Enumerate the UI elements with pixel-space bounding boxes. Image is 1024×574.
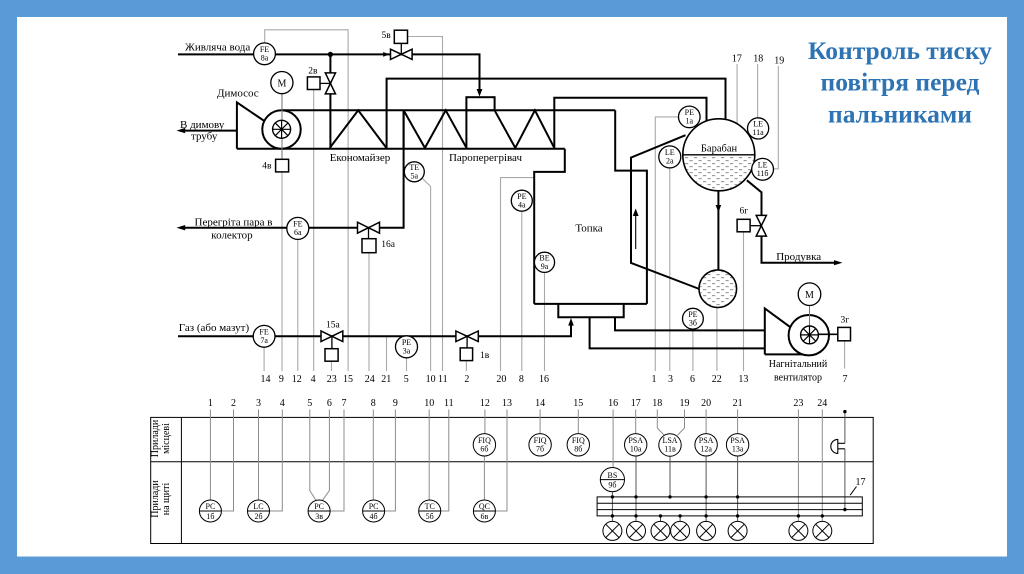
instrument TC 5б <box>419 500 441 522</box>
wire 14 (from FE 7a) <box>263 347 265 371</box>
svg-text:11: 11 <box>444 398 454 409</box>
wire 10 (from TE 5a) <box>421 177 431 372</box>
wire column 10 <box>428 410 430 501</box>
svg-text:5: 5 <box>404 374 409 385</box>
svg-text:16а: 16а <box>381 240 396 250</box>
wire PSA 10a to lamp <box>635 456 637 521</box>
svg-text:9а: 9а <box>541 262 549 271</box>
forced draft fan housing <box>765 309 808 355</box>
svg-text:13а: 13а <box>732 445 744 454</box>
wire: superheated steam line to collector <box>180 110 404 227</box>
instrument FE 8a <box>254 43 276 65</box>
blowdown line from drum to valve 6г <box>747 180 762 215</box>
svg-text:4б: 4б <box>370 512 378 521</box>
burner box <box>558 304 623 317</box>
svg-text:М: М <box>277 78 286 89</box>
instrument PSA 12a <box>695 434 717 456</box>
svg-text:6в: 6в <box>481 512 489 521</box>
column number labels <box>208 398 827 409</box>
valve 16a <box>358 222 396 253</box>
svg-text:7: 7 <box>342 398 347 409</box>
svg-text:Димосос: Димосос <box>217 88 259 100</box>
wire: downward arrow on drum vertical <box>716 205 722 213</box>
label Прилади місцеві <box>150 419 172 457</box>
wire column 4 <box>270 410 283 512</box>
svg-text:колектор: колектор <box>211 230 253 242</box>
svg-text:17: 17 <box>631 398 641 409</box>
drum to lower drum vertical <box>717 191 719 270</box>
wire 7 (from 3г actuator) <box>844 341 846 369</box>
svg-text:23: 23 <box>793 398 803 409</box>
label 17 bus <box>850 477 865 495</box>
svg-text:TC: TC <box>425 502 435 511</box>
svg-text:5в: 5в <box>382 31 392 41</box>
furnace bottom <box>534 303 647 305</box>
svg-text:15а: 15а <box>326 320 341 330</box>
svg-text:повітря перед: повітря перед <box>821 68 980 97</box>
svg-text:18: 18 <box>753 54 763 65</box>
valve 1в <box>456 331 490 361</box>
svg-text:8а: 8а <box>261 54 269 63</box>
svg-text:14: 14 <box>261 374 271 385</box>
instrument LSA 11в <box>659 434 681 456</box>
svg-text:7: 7 <box>843 374 848 385</box>
wire column 12 <box>484 410 486 434</box>
wire 22 (from lower drum) <box>716 300 718 371</box>
wire 15 (from FE 8a over the top) <box>265 30 348 371</box>
svg-text:Прилади: Прилади <box>150 480 161 518</box>
svg-text:4: 4 <box>311 374 316 385</box>
svg-text:Пароперегрівач: Пароперегрівач <box>449 152 523 164</box>
alarm horn <box>831 439 845 453</box>
instrument FE 7a <box>253 325 275 347</box>
svg-text:2: 2 <box>464 374 469 385</box>
wire 18 (to LE 11a) <box>757 64 759 118</box>
wire 8 (from PE 4a) <box>521 211 523 371</box>
instrument PE 1a <box>679 106 701 128</box>
svg-text:24: 24 <box>365 374 375 385</box>
wire FIQ 6б to QC 6в <box>483 456 485 500</box>
wire: Продувка arrow <box>834 260 843 265</box>
wire lamp 4 stub <box>679 516 681 522</box>
lamp 8 <box>813 521 832 540</box>
svg-text:6б: 6б <box>480 445 488 454</box>
instrument FIQ 7б <box>529 434 551 456</box>
svg-text:1в: 1в <box>480 351 490 361</box>
smoke exhauster impeller <box>273 120 291 138</box>
wire 1 (from PE 1a) <box>655 117 678 371</box>
svg-text:2б: 2б <box>254 512 262 521</box>
wire column 5 <box>310 410 316 501</box>
valve 2в <box>307 67 335 94</box>
smoke exhauster scroll circle <box>262 110 300 148</box>
wire 16 (from BE 9a) <box>544 273 546 371</box>
svg-text:Перегріта пара в: Перегріта пара в <box>195 216 273 228</box>
instrument PC 3в <box>308 500 330 522</box>
svg-text:Економайзер: Економайзер <box>330 152 391 164</box>
svg-text:21: 21 <box>733 398 743 409</box>
wire: fan to 3г <box>818 333 837 335</box>
wire 6 (from PE 3б) <box>692 329 694 371</box>
instrument LC 2б <box>248 500 270 522</box>
lamp 3 <box>651 521 670 540</box>
instrument PSA 13a <box>726 434 748 456</box>
wire column 21 <box>737 410 739 434</box>
svg-text:В димову: В димову <box>180 119 225 131</box>
wire 11 (from valve 5в actuator) <box>408 37 442 372</box>
svg-text:1: 1 <box>652 374 657 385</box>
svg-text:21: 21 <box>381 374 391 385</box>
svg-text:2а: 2а <box>666 157 674 166</box>
wire: to chimney line <box>180 130 237 132</box>
wire column 17 <box>635 410 637 434</box>
wire: feed water line <box>178 54 480 94</box>
svg-text:11а: 11а <box>752 128 764 137</box>
svg-text:9: 9 <box>279 374 284 385</box>
bus junction dots <box>611 495 847 517</box>
instrument PE 4a <box>511 190 532 211</box>
svg-text:10а: 10а <box>630 445 642 454</box>
gas line <box>178 321 571 337</box>
svg-text:6а: 6а <box>294 228 302 237</box>
svg-text:10: 10 <box>426 374 436 385</box>
svg-text:3в: 3в <box>315 512 323 521</box>
wire: M motor shaft fan2 <box>809 306 811 328</box>
wire column 14 <box>539 410 541 434</box>
motor M smoke exhauster <box>271 72 293 94</box>
instrument LE 11a <box>748 118 769 139</box>
svg-text:місцеві: місцеві <box>161 423 172 454</box>
wire column 8 <box>372 410 374 501</box>
instrument PSA 10a <box>625 434 647 456</box>
lamp 2 <box>627 521 646 540</box>
svg-text:6: 6 <box>690 374 695 385</box>
motor M forced draft fan <box>798 283 821 306</box>
lamp 4 <box>671 521 690 540</box>
svg-text:13: 13 <box>738 374 748 385</box>
lamp 1 <box>603 521 622 540</box>
instrument FE 6a <box>287 217 309 239</box>
svg-text:5: 5 <box>307 398 312 409</box>
lamp 5 <box>697 521 716 540</box>
wire: feed water arrow before valve 5в <box>383 52 389 57</box>
svg-text:Контроль тиску: Контроль тиску <box>808 36 992 65</box>
drum downcomer <box>631 135 699 289</box>
wire column 13 <box>495 410 507 512</box>
furnace gas passage left step <box>534 149 565 304</box>
wire 3 (from LE 2a) <box>669 168 671 371</box>
furnace gas passage right <box>615 110 647 304</box>
svg-text:12а: 12а <box>700 445 712 454</box>
blowdown line from valve to Продувка arrow <box>762 236 840 263</box>
lamp 6 <box>728 521 747 540</box>
wire number labels bottom of schematic <box>261 374 848 385</box>
svg-text:10: 10 <box>424 398 434 409</box>
svg-text:16: 16 <box>608 398 618 409</box>
lamp 7 <box>789 521 808 540</box>
svg-text:5а: 5а <box>411 172 419 181</box>
panel table frame <box>151 417 874 543</box>
4в sensor square <box>262 159 288 172</box>
economizer inlet header box <box>466 97 494 110</box>
svg-text:8б: 8б <box>574 445 582 454</box>
svg-text:15: 15 <box>343 374 353 385</box>
wire column 15 <box>577 410 579 434</box>
svg-text:1б: 1б <box>206 512 214 521</box>
wire 23 (from 15a actuator) <box>331 361 333 371</box>
wire 9 (from M / 4в of smoke exhauster) <box>281 94 283 371</box>
svg-text:на щиті: на щиті <box>161 483 172 516</box>
svg-text:24: 24 <box>817 398 827 409</box>
svg-text:3а: 3а <box>403 347 411 356</box>
wire column 7 <box>330 410 344 512</box>
forced draft fan impeller <box>801 326 819 344</box>
svg-text:20: 20 <box>496 374 506 385</box>
svg-text:12: 12 <box>292 374 302 385</box>
wire 17 (drum tap) <box>736 64 738 124</box>
wire 4 (from 2в actuator) <box>313 90 315 371</box>
svg-text:PC: PC <box>369 502 379 511</box>
svg-text:2: 2 <box>231 398 236 409</box>
wire column 3 <box>258 410 260 501</box>
forced draft fan scroll circle <box>789 315 829 355</box>
wire: steam collector arrow <box>177 225 186 230</box>
wire: M motor shaft through fan <box>281 94 283 159</box>
economizer coil <box>330 110 387 148</box>
svg-text:3: 3 <box>256 398 261 409</box>
svg-text:8: 8 <box>371 398 376 409</box>
svg-text:3г: 3г <box>841 316 850 326</box>
wire horn drop <box>844 412 846 444</box>
svg-text:6: 6 <box>327 398 332 409</box>
lower drum <box>698 269 738 309</box>
svg-text:11в: 11в <box>664 445 676 454</box>
wire column 2 <box>221 410 233 512</box>
valve 15a <box>321 320 343 361</box>
instrument BS 9б <box>600 468 624 492</box>
svg-text:пальниками: пальниками <box>828 100 972 129</box>
svg-text:Барабан: Барабан <box>701 144 738 155</box>
wire column 9 <box>385 410 396 512</box>
svg-text:Нагнітальний: Нагнітальний <box>769 359 828 370</box>
air duct upper line <box>615 317 765 330</box>
wire: chimney arrow <box>177 128 186 133</box>
wire 12 (from FE 6a) <box>297 240 299 371</box>
svg-text:трубу: трубу <box>191 131 218 143</box>
svg-text:17: 17 <box>732 54 742 65</box>
instrument PE 3a <box>396 336 418 358</box>
node: feed water junction <box>328 52 333 57</box>
svg-text:Топка: Топка <box>575 223 602 235</box>
instrument PC 1б <box>199 500 221 522</box>
valve 5в <box>382 30 413 59</box>
svg-text:LC: LC <box>253 502 263 511</box>
wire column 11 <box>440 410 449 512</box>
svg-text:17: 17 <box>856 477 866 488</box>
flue duct bottom <box>237 148 565 150</box>
wire column 18 <box>657 410 664 436</box>
air duct lower line <box>590 317 765 348</box>
superheater coil right section <box>465 110 467 148</box>
svg-text:12: 12 <box>480 398 490 409</box>
instrument BE 9a <box>534 252 554 272</box>
svg-text:11б: 11б <box>757 169 769 178</box>
instrument FIQ 6б <box>473 434 495 456</box>
svg-text:9: 9 <box>393 398 398 409</box>
svg-text:11: 11 <box>438 374 448 385</box>
svg-text:Прилади: Прилади <box>150 419 161 457</box>
svg-text:4: 4 <box>280 398 285 409</box>
instrument TE 5a <box>404 162 424 182</box>
wire 21 (gas line tap) <box>386 336 388 371</box>
instrument PC 4б <box>363 500 385 522</box>
flue duct top <box>282 109 616 111</box>
wire PSA 12a to lamp <box>705 456 707 521</box>
title <box>808 36 992 129</box>
instrument PE 3б <box>683 308 704 329</box>
3г sensor square <box>838 316 851 341</box>
drum Барабан <box>682 119 756 192</box>
svg-text:Живляча вода: Живляча вода <box>185 42 250 54</box>
svg-text:4в: 4в <box>262 162 272 172</box>
svg-text:6г: 6г <box>740 206 749 216</box>
wire lamp 3 stub <box>660 516 662 522</box>
svg-text:PC: PC <box>314 502 324 511</box>
svg-text:20: 20 <box>701 398 711 409</box>
svg-text:Продувка: Продувка <box>776 251 821 263</box>
svg-text:2в: 2в <box>308 67 318 77</box>
wire column 16 <box>612 410 614 468</box>
wire 19 (to LE 11б) <box>774 66 779 169</box>
svg-text:15: 15 <box>573 398 583 409</box>
instrument LE 11б <box>752 158 774 180</box>
svg-text:М: М <box>805 290 814 301</box>
svg-text:1а: 1а <box>686 117 694 126</box>
svg-text:7а: 7а <box>260 336 268 345</box>
svg-text:23: 23 <box>327 374 337 385</box>
wire column 1 <box>209 410 211 501</box>
svg-text:4а: 4а <box>518 200 526 209</box>
instrument LE 2a <box>659 146 681 168</box>
svg-text:3б: 3б <box>689 318 697 327</box>
svg-text:19: 19 <box>774 56 784 67</box>
svg-text:19: 19 <box>680 398 690 409</box>
svg-text:5б: 5б <box>426 512 434 521</box>
wire 20 (furnace pressure tap) <box>501 178 534 371</box>
valve 6г <box>737 206 766 236</box>
wire: 2в valve drop into duct <box>329 54 331 147</box>
wire column 6 <box>323 410 330 501</box>
svg-text:QC: QC <box>479 502 490 511</box>
wire 5 (from PE 3a) <box>406 358 408 371</box>
wire: feed water arrow into economizer header <box>477 89 483 97</box>
svg-text:8: 8 <box>519 374 524 385</box>
wire column 24 <box>821 410 823 522</box>
svg-text:3: 3 <box>668 374 673 385</box>
wire: economizer outlet to drum (upper run) <box>387 79 726 148</box>
svg-text:22: 22 <box>712 374 722 385</box>
svg-text:BS: BS <box>608 471 618 480</box>
svg-text:13: 13 <box>502 398 512 409</box>
instrument FIQ 8б <box>567 434 589 456</box>
label Прилади на щиті <box>150 480 172 518</box>
svg-text:1: 1 <box>208 398 213 409</box>
wire: gas arrow into burners <box>568 318 574 326</box>
wire 13 (from 6г actuator) <box>743 232 745 371</box>
wire PSA 13a to lamp <box>737 456 739 521</box>
smoke exhauster housing <box>237 102 281 148</box>
wire column 23 <box>797 410 799 522</box>
wire 2 (from 1в actuator) <box>465 361 467 371</box>
wire: drum steam to superheater header <box>554 98 706 148</box>
svg-text:PC: PC <box>206 502 216 511</box>
riser up arrow <box>635 212 637 249</box>
svg-text:9б: 9б <box>608 481 616 490</box>
instrument QC 6в <box>473 500 495 522</box>
svg-text:14: 14 <box>535 398 545 409</box>
wire column 19 <box>677 410 684 436</box>
svg-text:7б: 7б <box>536 445 544 454</box>
signal bus <box>597 497 862 516</box>
svg-text:Газ (або мазут): Газ (або мазут) <box>179 322 250 334</box>
wire BS 9б to lamp <box>611 492 613 522</box>
panel table label column divider <box>180 417 182 543</box>
superheater coil left section <box>403 110 405 148</box>
panel table row divider <box>151 461 874 463</box>
wire 24 (from 16a actuator) <box>368 253 370 371</box>
wire column 20 <box>705 410 707 434</box>
svg-text:вентилятор: вентилятор <box>774 373 822 384</box>
wire LSA 11в to bus <box>669 456 671 497</box>
svg-text:18: 18 <box>652 398 662 409</box>
svg-text:16: 16 <box>539 374 549 385</box>
